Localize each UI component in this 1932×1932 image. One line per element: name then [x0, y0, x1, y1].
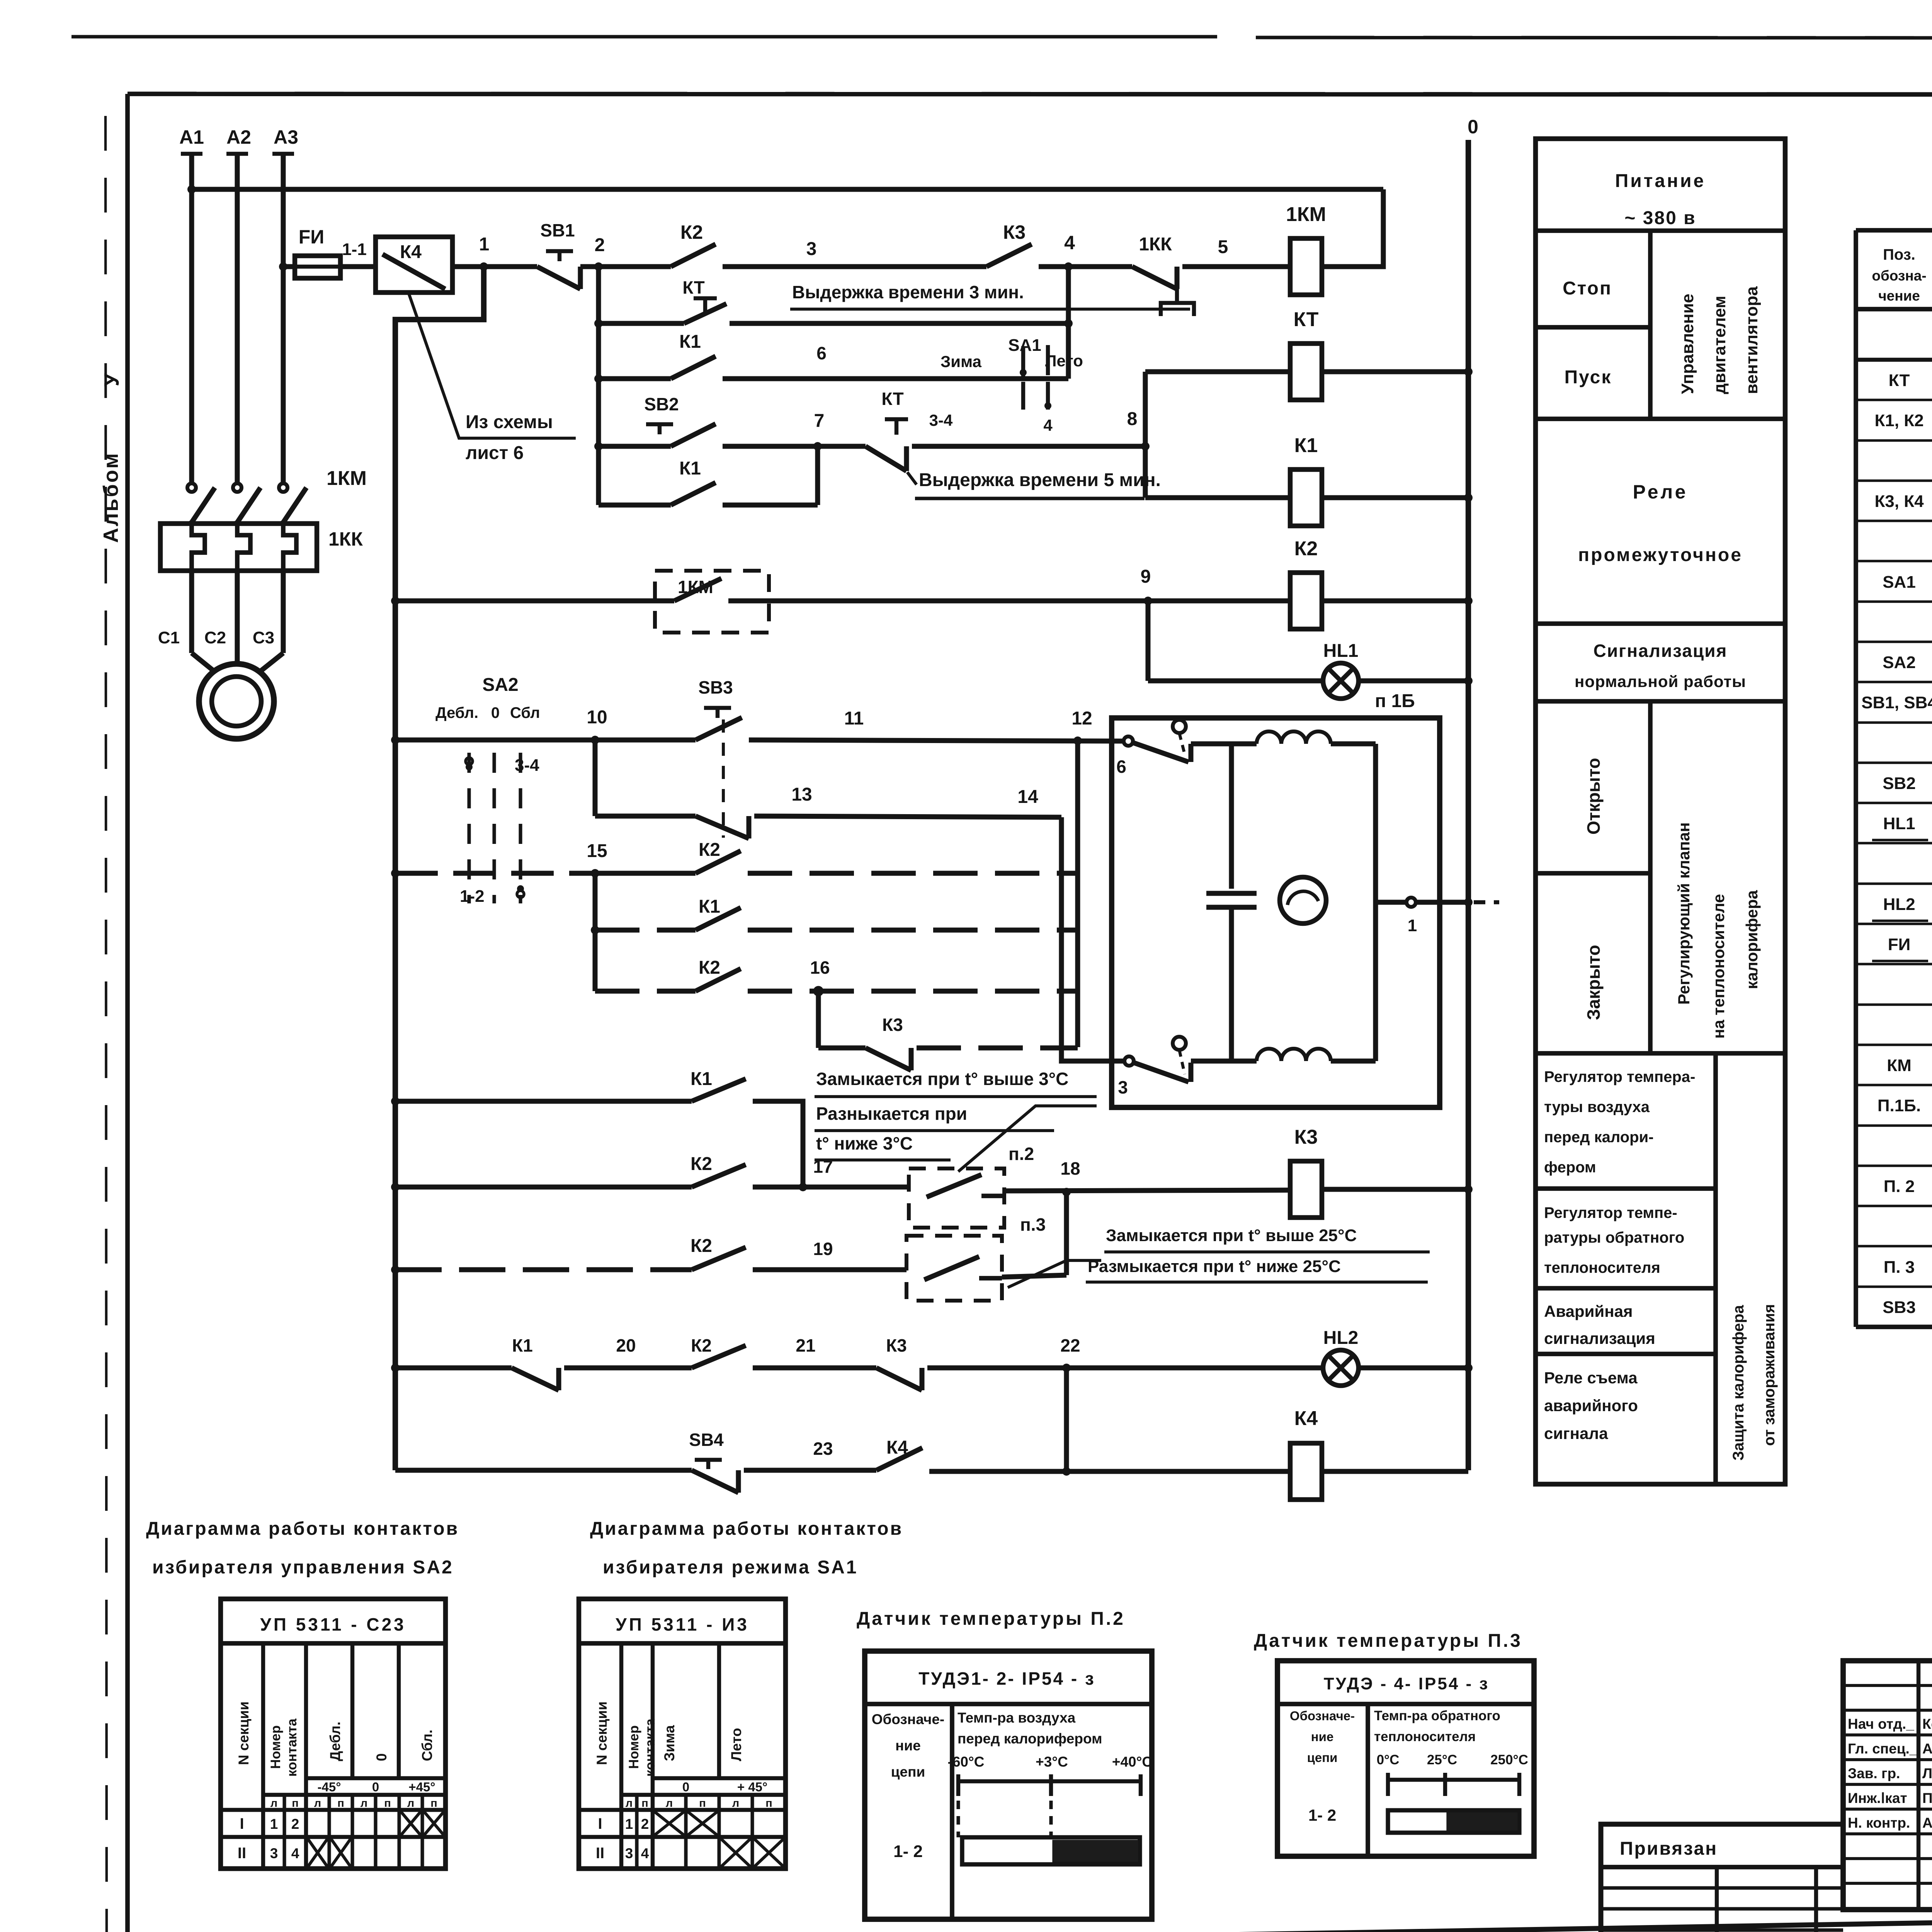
- svg-text:контакта: контакта: [284, 1718, 299, 1777]
- node 1: [479, 234, 490, 271]
- svg-text:Обозначе-: Обозначе-: [1290, 1709, 1355, 1723]
- freeze note line 3: [815, 1133, 951, 1160]
- wire with label 20: [564, 1335, 692, 1368]
- svg-text:Регулятор темпе-: Регулятор темпе-: [1544, 1204, 1677, 1221]
- coil 1KM: [1286, 203, 1326, 295]
- svg-text:0°С: 0°С: [1377, 1752, 1400, 1767]
- wire phase A1 vertical: [181, 154, 202, 482]
- bus 0 label: [1468, 116, 1478, 138]
- node 15: [587, 841, 607, 878]
- svg-text:л: л: [314, 1797, 321, 1810]
- wires from 1KK to motor: [192, 571, 283, 674]
- node on left bus HL2 rung: [391, 1364, 400, 1372]
- svg-text:нормальной работы: нормальной работы: [1575, 672, 1746, 690]
- coil K4: [1290, 1407, 1322, 1500]
- svg-text:У: У: [100, 373, 123, 386]
- svg-text:Аварийная: Аварийная: [1544, 1302, 1633, 1320]
- node 10: [587, 707, 607, 744]
- wire HL1 to bus 0: [1359, 677, 1473, 685]
- node on left bus K2 rung 17: [391, 1183, 400, 1191]
- element list table grid: [1856, 230, 1932, 1327]
- privyazan table: [1601, 1824, 1843, 1932]
- svg-text:0: 0: [374, 1753, 389, 1761]
- label 1KM at main contacts: [327, 467, 367, 490]
- left margin fold line (dashed): [105, 116, 107, 1932]
- thermostat P.2 contact: [927, 1175, 1004, 1197]
- wire rung 2 to node4 branch: [594, 267, 1073, 451]
- pushbutton SB2 (NO): [599, 394, 716, 446]
- svg-text:3: 3: [1118, 1077, 1128, 1097]
- node at bus 0 valve line: [1464, 898, 1499, 906]
- svg-text:Зима: Зима: [662, 1725, 677, 1761]
- svg-text:I: I: [598, 1815, 602, 1832]
- svg-text:4: 4: [1064, 232, 1075, 253]
- relay contact K1 (NC) HL2 rung: [395, 1335, 559, 1390]
- motor M: [199, 664, 274, 739]
- svg-text:Любимов: Любимов: [1922, 1765, 1932, 1781]
- wire node15 vertical: [593, 873, 598, 991]
- relay contact K2 (NO) rung 1: [671, 221, 716, 267]
- svg-text:0: 0: [372, 1780, 379, 1794]
- relay contact KT (time-delay) rung 2: [599, 277, 726, 323]
- thermostat P.2 dashed box: [909, 1144, 1034, 1228]
- relay contact KT (delayed opening) rung 4: [866, 389, 908, 471]
- wire fuse to K4 box: [340, 264, 376, 269]
- node on left bus rung 1-2: [391, 869, 400, 878]
- svg-text:Нач отд._: Нач отд._: [1848, 1716, 1914, 1732]
- svg-text:К2: К2: [680, 221, 703, 243]
- valve limit switch upper: [1133, 720, 1191, 762]
- svg-text:А3: А3: [274, 126, 298, 148]
- mode selector SA1 marks: [929, 336, 1083, 434]
- title block frame: [1843, 1661, 1932, 1910]
- svg-text:л: л: [407, 1797, 414, 1810]
- relay contact K2 (NO) rung 19: [395, 1236, 746, 1270]
- svg-text:25°С: 25°С: [1427, 1752, 1457, 1767]
- function cell normal operation signalling: [1575, 641, 1746, 690]
- valve limit switch lower: [1134, 1037, 1191, 1082]
- svg-text:К2: К2: [699, 840, 720, 860]
- pushbutton SB3 (NO) upper: [696, 677, 742, 740]
- svg-text:Н. контр.: Н. контр.: [1848, 1815, 1910, 1831]
- svg-text:0: 0: [1468, 116, 1478, 138]
- wire rung 16 with node 16: [748, 957, 1078, 995]
- wire rung 15 to node12 vertical: [748, 871, 1078, 876]
- svg-text:N секции: N секции: [594, 1701, 610, 1765]
- svg-text:л: л: [666, 1797, 673, 1810]
- node 2: [594, 235, 605, 271]
- svg-text:Обозначе-: Обозначе-: [872, 1711, 945, 1727]
- callout text from scheme sheet 6: [466, 412, 553, 463]
- node on left bus rung 3-4: [391, 736, 400, 744]
- valve positioner motor circle: [1280, 877, 1326, 923]
- valve motor winding upper: [1257, 731, 1331, 744]
- selector SA2 section 3-4 dashed stems: [466, 753, 524, 903]
- svg-text:Из схемы: Из схемы: [466, 412, 553, 432]
- svg-text:Стоп: Стоп: [1563, 278, 1612, 299]
- element table rows: [1856, 371, 1932, 1317]
- wire node2 to K2 contact: [599, 264, 671, 269]
- svg-text:сигнала: сигнала: [1544, 1424, 1608, 1442]
- svg-text:7: 7: [814, 411, 825, 431]
- svg-text:SВ3: SВ3: [1883, 1298, 1916, 1317]
- svg-text:SВ4: SВ4: [689, 1430, 724, 1450]
- svg-text:туры воздуха: туры воздуха: [1544, 1099, 1650, 1116]
- wire rung 3-4 to node 10: [395, 738, 696, 743]
- svg-text:t° ниже 3°С: t° ниже 3°С: [816, 1133, 913, 1153]
- wire K4 contact to coil K4: [929, 1467, 1290, 1476]
- svg-text:0: 0: [682, 1780, 689, 1794]
- svg-text:К3: К3: [1003, 221, 1026, 243]
- relay contact K3 (NC) HL2 rung: [876, 1335, 922, 1390]
- wire phase A2 vertical: [226, 154, 248, 482]
- svg-text:ТУДЭ1- 2- IР54 - з: ТУДЭ1- 2- IР54 - з: [918, 1668, 1095, 1689]
- svg-text:+3°С: +3°С: [1036, 1754, 1068, 1770]
- svg-text:п.3: п.3: [1020, 1214, 1046, 1235]
- contact diagram table SA2: [221, 1599, 446, 1869]
- svg-text:4: 4: [641, 1845, 649, 1861]
- pushbutton SB3 (NC) lower: [696, 816, 749, 838]
- svg-text:20: 20: [616, 1335, 636, 1355]
- svg-text:Алексеев: Алексеев: [1922, 1741, 1932, 1757]
- wire coil K4 to bus 0: [1322, 1469, 1468, 1474]
- svg-text:КТ: КТ: [1889, 371, 1910, 390]
- svg-text:на теплоносителе: на теплоносителе: [1709, 894, 1728, 1039]
- wire rung 3-4 node11 to valve terminal 6: [749, 708, 1128, 741]
- svg-text:К3: К3: [882, 1015, 903, 1035]
- svg-text:промежуточное: промежуточное: [1578, 545, 1743, 565]
- sensor P.2 title: [857, 1609, 1125, 1629]
- svg-text:обозна-: обозна-: [1872, 268, 1926, 284]
- wire HL2 to bus 0: [1359, 1364, 1473, 1372]
- function cell control valve (rotated): [1675, 822, 1761, 1039]
- coil K2: [1290, 537, 1322, 629]
- svg-text:N секции: N секции: [236, 1701, 252, 1765]
- svg-text:теплоносителя: теплоносителя: [1374, 1729, 1476, 1744]
- function cell air temperature regulator: [1544, 1068, 1695, 1176]
- wire node22 vertical: [1064, 1368, 1069, 1471]
- wire from node 1 to ladder left bus: [395, 267, 484, 1470]
- relay contact K1 (NO) rung 5: [599, 458, 716, 505]
- svg-text:Привязан: Привязан: [1620, 1838, 1718, 1859]
- svg-text:FИ: FИ: [1888, 935, 1911, 954]
- relay contact K2 (NO) rung 16: [595, 957, 741, 991]
- wire rung 1-2 to node 15: [395, 871, 595, 876]
- svg-text:SВ2: SВ2: [644, 394, 679, 414]
- time delay note 5 min: [915, 470, 1161, 498]
- svg-text:Лето: Лето: [728, 1728, 744, 1761]
- svg-text:-45°: -45°: [318, 1780, 341, 1794]
- svg-text:15: 15: [587, 841, 607, 861]
- svg-text:2: 2: [291, 1816, 299, 1832]
- svg-text:К2: К2: [690, 1236, 712, 1256]
- svg-text:-60°С: -60°С: [948, 1754, 985, 1770]
- svg-text:Выдержка времени 5 мин.: Выдержка времени 5 мин.: [919, 470, 1161, 490]
- svg-text:Замыкается при t° выше 3°С: Замыкается при t° выше 3°С: [816, 1069, 1068, 1089]
- wire rung 4 to node 8: [912, 444, 1145, 449]
- svg-text:Сигнализация: Сигнализация: [1594, 641, 1728, 661]
- thermal overload relay 1KK box: [160, 524, 317, 571]
- svg-text:Сбл.: Сбл.: [419, 1730, 435, 1761]
- svg-text:1- 2: 1- 2: [1308, 1806, 1336, 1824]
- wire rung 6 left: [395, 599, 674, 604]
- thermal contact 1KK (NC with trip button): [1132, 234, 1194, 316]
- svg-text:19: 19: [813, 1239, 833, 1259]
- svg-text:К2: К2: [691, 1335, 712, 1355]
- wire rung 3 with node 6: [723, 343, 1068, 379]
- svg-text:18: 18: [1060, 1158, 1080, 1179]
- wire node10 vertical to rung 13: [595, 740, 696, 816]
- svg-text:аварийного: аварийного: [1544, 1396, 1638, 1415]
- selector SA2 labels: [435, 675, 540, 721]
- coil KT: [1145, 308, 1322, 400]
- svg-text:избирателя режима SА1: избирателя режима SА1: [603, 1557, 858, 1578]
- valve terminal 1 wire: [1376, 898, 1468, 935]
- wire K3 to node 4: [1039, 264, 1132, 269]
- svg-text:Зима: Зима: [940, 352, 982, 371]
- svg-text:Разныкается при: Разныкается при: [816, 1104, 967, 1124]
- svg-text:1КМ: 1КМ: [327, 467, 367, 490]
- coil K1: [1145, 434, 1322, 526]
- function cell Pusk: [1565, 367, 1612, 388]
- node A2 label: [226, 126, 251, 148]
- node on left bus rung 6: [391, 597, 400, 605]
- wire winding to right riser: [1331, 744, 1376, 1061]
- svg-text:5: 5: [1218, 237, 1228, 257]
- svg-text:К3: К3: [1294, 1126, 1318, 1148]
- svg-text:чение: чение: [1878, 288, 1920, 304]
- function cell Pitanie 380V: [1615, 171, 1706, 228]
- svg-text:ние: ние: [1311, 1730, 1334, 1744]
- time delay note 3 min: [790, 282, 1190, 309]
- album label: [99, 373, 123, 543]
- svg-text:HL2: HL2: [1323, 1328, 1359, 1348]
- relay contact K4 (NC, in box): [376, 237, 452, 293]
- wire rung 5 to node 7 vertical: [723, 446, 818, 505]
- freeze note line 1: [815, 1069, 1097, 1097]
- svg-text:14: 14: [1017, 787, 1038, 807]
- SB3 mechanical link dashed: [722, 719, 725, 838]
- svg-text:Реле: Реле: [1633, 481, 1688, 503]
- svg-text:1: 1: [625, 1816, 633, 1832]
- fuse FU: [295, 226, 340, 278]
- svg-text:3-4: 3-4: [929, 411, 953, 429]
- node A3 label: [274, 126, 298, 148]
- pushbutton SB1 (stop, NC): [537, 220, 599, 289]
- svg-text:9: 9: [1141, 566, 1151, 587]
- svg-text:п.2: п.2: [1009, 1144, 1034, 1164]
- wire node12 vertical: [1075, 741, 1080, 1047]
- svg-text:С1: С1: [158, 628, 180, 647]
- function cell alarm reset relay: [1544, 1369, 1638, 1442]
- svg-text:п: п: [384, 1797, 391, 1810]
- svg-text:1: 1: [1408, 916, 1417, 935]
- svg-text:1КК: 1КК: [1139, 234, 1172, 255]
- svg-text:Зав. гр.: Зав. гр.: [1848, 1765, 1900, 1781]
- wire rung 19 to thermostat P.3: [753, 1239, 906, 1270]
- svg-text:К4: К4: [1294, 1407, 1318, 1430]
- valve motor winding lower: [1191, 1049, 1376, 1061]
- svg-text:К1: К1: [679, 332, 701, 352]
- svg-text:FИ: FИ: [299, 226, 324, 248]
- wire bypass rung to node12 vertical: [917, 1046, 1078, 1051]
- svg-text:фером: фером: [1544, 1159, 1596, 1176]
- svg-text:п: п: [699, 1797, 706, 1810]
- svg-text:SВ3: SВ3: [698, 677, 733, 697]
- diagram SA1 title: [590, 1519, 903, 1578]
- svg-text:лист 6: лист 6: [466, 443, 524, 463]
- svg-text:К1: К1: [1294, 434, 1318, 457]
- svg-text:Поз.: Поз.: [1883, 246, 1915, 263]
- svg-text:К3: К3: [886, 1335, 907, 1355]
- svg-text:Открыто: Открыто: [1583, 758, 1604, 835]
- svg-text:Закрыто: Закрыто: [1583, 945, 1604, 1020]
- wire rung 13 with label 13 and 14: [754, 784, 1061, 817]
- svg-text:КТ: КТ: [1294, 308, 1319, 331]
- capacitor in valve box: [1206, 744, 1257, 1061]
- svg-text:п: п: [337, 1797, 344, 1810]
- wire coil KT to bus 0: [1322, 367, 1473, 376]
- svg-text:1- 2: 1- 2: [893, 1842, 923, 1861]
- svg-text:УП 5311 - С23: УП 5311 - С23: [260, 1614, 406, 1634]
- function cell freeze protection (rotated): [1730, 1304, 1778, 1461]
- svg-text:11: 11: [844, 708, 864, 729]
- wire freeze rung to drop: [753, 1101, 803, 1187]
- wire 14 down to valve terminal 3: [1061, 817, 1126, 1061]
- svg-text:1: 1: [270, 1816, 278, 1832]
- svg-text:К2: К2: [699, 957, 720, 978]
- svg-text:цепи: цепи: [891, 1764, 925, 1780]
- node 8: [1127, 409, 1150, 451]
- svg-text:I: I: [240, 1815, 244, 1832]
- svg-text:КМ: КМ: [1887, 1056, 1912, 1075]
- title block left rows: [1843, 1685, 1932, 1883]
- bus 0 vertical: [1466, 140, 1471, 1470]
- svg-text:1: 1: [479, 234, 490, 255]
- svg-text:калорифера: калорифера: [1743, 890, 1761, 989]
- wire rung 1 left segment: [283, 264, 295, 269]
- svg-text:ние: ние: [895, 1738, 921, 1753]
- svg-text:SА2: SА2: [1883, 653, 1916, 672]
- svg-text:избирателя управления SА2: избирателя управления SА2: [152, 1557, 454, 1578]
- svg-text:3: 3: [270, 1845, 278, 1861]
- poz underline marks: [1872, 840, 1928, 961]
- function cell fan motor control (rotated): [1678, 286, 1761, 394]
- note P.3 line 2: [1086, 1257, 1428, 1282]
- svg-text:Номер: Номер: [268, 1725, 283, 1769]
- svg-text:1-2: 1-2: [460, 887, 485, 906]
- sensor P.3 title: [1254, 1631, 1522, 1651]
- wire P.3 to node18 vertical: [1002, 1192, 1066, 1277]
- wire P.2 to node 18: [1004, 1190, 1290, 1191]
- svg-text:Кондратьев: Кондратьев: [1922, 1716, 1932, 1732]
- svg-text:КТ: КТ: [881, 389, 903, 409]
- svg-text:К1: К1: [699, 896, 720, 917]
- wire coil K3 to bus 0: [1322, 1185, 1473, 1194]
- contact diagram table SA1: [579, 1599, 786, 1869]
- node 9: [1141, 566, 1152, 605]
- node 4: [1064, 232, 1075, 271]
- svg-text:Инв. N°: Инв. N°: [1625, 1930, 1684, 1932]
- wire 1KK to coil 1KM with node 5: [1182, 237, 1290, 267]
- label 3-4 selector position: [515, 756, 539, 775]
- svg-text:Дебл.: Дебл.: [327, 1721, 343, 1761]
- svg-text:п: п: [430, 1797, 437, 1810]
- svg-text:К2: К2: [690, 1154, 712, 1174]
- svg-text:+ 45°: + 45°: [737, 1780, 767, 1794]
- svg-text:УП 5311 - И3: УП 5311 - И3: [616, 1614, 749, 1634]
- svg-text:перед калорифером: перед калорифером: [957, 1731, 1102, 1747]
- svg-text:ратуры обратного: ратуры обратного: [1544, 1229, 1684, 1246]
- svg-text:3: 3: [806, 239, 817, 259]
- svg-text:16: 16: [810, 957, 830, 978]
- svg-text:от замораживания: от замораживания: [1761, 1304, 1778, 1446]
- wire SB2 to node 7: [723, 444, 866, 449]
- label 1KK at thermal relay: [328, 528, 363, 550]
- label C1 C2 C3 motor terminals: [158, 628, 274, 647]
- sheet outer top edge line: [71, 37, 1932, 38]
- svg-text:К3, К4: К3, К4: [1874, 492, 1924, 511]
- svg-text:II: II: [596, 1845, 604, 1862]
- svg-text:Дебл.: Дебл.: [435, 704, 478, 721]
- svg-text:+40°С: +40°С: [1112, 1754, 1152, 1770]
- svg-text:1КМ: 1КМ: [1286, 203, 1326, 226]
- relay contact K1 (NO) rung 16a: [591, 896, 741, 934]
- svg-text:вентилятора: вентилятора: [1742, 286, 1761, 394]
- svg-text:Датчик температуры П.3: Датчик температуры П.3: [1254, 1631, 1522, 1651]
- wire branch bus from node 2: [596, 267, 601, 505]
- svg-text:НL2: НL2: [1883, 895, 1915, 914]
- label 1-2 selector position: [460, 887, 485, 906]
- svg-text:4: 4: [291, 1845, 299, 1861]
- svg-text:3: 3: [625, 1845, 633, 1861]
- svg-text:П. 2: П. 2: [1884, 1177, 1915, 1196]
- wire K4 to node 1: [452, 264, 537, 269]
- freeze note line 2: [815, 1104, 1054, 1131]
- node junction on A3 feeding control circuit: [279, 262, 287, 271]
- wire node8 vertical: [1143, 372, 1148, 498]
- svg-text:HL1: HL1: [1323, 641, 1359, 661]
- svg-text:цепи: цепи: [1307, 1750, 1338, 1765]
- svg-text:SВ1, SВ4: SВ1, SВ4: [1861, 693, 1932, 712]
- signal lamp HL1: [1323, 641, 1359, 699]
- svg-text:Управление: Управление: [1678, 294, 1697, 394]
- svg-text:П. 3: П. 3: [1884, 1258, 1915, 1277]
- wire rung 16a to node12 vertical: [748, 928, 1078, 933]
- svg-text:21: 21: [796, 1335, 815, 1355]
- wire coil K1 to bus 0: [1322, 493, 1473, 502]
- svg-text:10: 10: [587, 707, 607, 728]
- wire node16 branch down: [818, 991, 866, 1048]
- node 18: [1060, 1158, 1080, 1196]
- svg-text:SА2: SА2: [482, 675, 518, 695]
- svg-text:Пуск: Пуск: [1565, 367, 1612, 388]
- function cell intermediate relay: [1578, 481, 1743, 565]
- title block names: [1848, 1716, 1932, 1831]
- note P.3 line 1: [1104, 1226, 1430, 1252]
- svg-text:НL1: НL1: [1883, 814, 1915, 833]
- wire phase A3 vertical: [272, 154, 294, 482]
- svg-text:К1: К1: [690, 1069, 712, 1089]
- relay contact K2 (NO) rung 17: [395, 1154, 746, 1187]
- svg-text:Альбом: Альбом: [99, 452, 122, 543]
- auxiliary contact 1KM (selfhold, dashed enclosure): [655, 571, 769, 633]
- svg-text:Датчик температуры П.2: Датчик температуры П.2: [857, 1609, 1125, 1629]
- leader to thermostat P.2: [958, 1106, 1097, 1172]
- svg-text:2: 2: [641, 1816, 649, 1832]
- wire with label 23: [744, 1439, 876, 1470]
- svg-text:Выдержка времени 3 мин.: Выдержка времени 3 мин.: [792, 282, 1024, 302]
